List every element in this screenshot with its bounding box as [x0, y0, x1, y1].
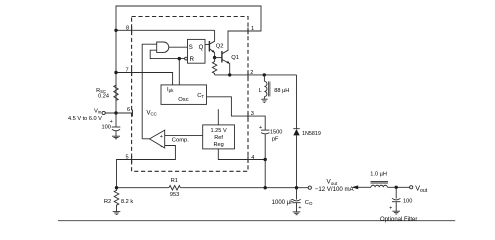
node Q1 emitter on pin2 rail: [228, 73, 231, 76]
wire output rail (Vout -12V): [117, 187, 169, 189]
svg-text:Q: Q: [199, 45, 204, 51]
ground under L: [261, 99, 267, 102]
svg-text:+: +: [160, 134, 163, 140]
svg-text:Vin: Vin: [94, 108, 102, 114]
pin tick 1: [247, 28, 249, 35]
svg-text:pF: pF: [272, 136, 279, 142]
transistor Q2: [209, 30, 214, 57]
node filter cap junction: [395, 186, 398, 189]
svg-text:8.2 k: 8.2 k: [121, 199, 133, 205]
transistor Q1: [222, 50, 230, 75]
node CT leg on rail: [264, 186, 267, 189]
diode 1N5819: [293, 75, 299, 188]
svg-text:2: 2: [250, 70, 253, 76]
svg-text:1500: 1500: [270, 129, 282, 135]
svg-text:100: 100: [403, 198, 412, 204]
ground under Co: [293, 212, 301, 215]
node R1/R2/pin5 junction: [115, 186, 118, 189]
wire outer loop Vin rail / top / pin1: [116, 6, 261, 113]
wire pin 2 rail: [215, 74, 297, 76]
node pin4/CT junction: [264, 158, 267, 161]
resistor base-emitter (Q2 emitter to pin2 rail): [212, 58, 216, 75]
svg-text:Osc: Osc: [178, 97, 188, 103]
wire arrow to filter inductor: [358, 186, 371, 188]
pin tick 4: [247, 156, 249, 163]
ground under filter cap: [392, 211, 400, 214]
inductor 1.0uH filter: [371, 181, 389, 187]
svg-text:Reg: Reg: [213, 142, 223, 148]
wire pin 6 Vin line: [105, 112, 132, 114]
svg-text:5: 5: [126, 155, 129, 161]
svg-text:-: -: [161, 144, 163, 150]
svg-text:100: 100: [102, 124, 111, 130]
svg-text:1000 µF: 1000 µF: [272, 200, 294, 206]
wire osc to R junction: [178, 59, 180, 85]
wire AND bottom input: [150, 50, 184, 58]
svg-text:R: R: [190, 57, 195, 63]
inductor L 88uH: [264, 75, 270, 99]
node osc junction: [178, 57, 181, 60]
node inductor tap on pin2 rail: [263, 73, 266, 76]
terminal Vin: [102, 111, 105, 114]
svg-text:+: +: [389, 206, 392, 212]
wire Q output to Q2 base: [205, 44, 209, 46]
wire Q2 emitter to Q1 base: [215, 57, 222, 59]
pin tick 8: [131, 27, 133, 34]
svg-text:4: 4: [251, 155, 254, 161]
svg-text:1: 1: [251, 26, 254, 32]
svg-text:1.25 V: 1.25 V: [211, 128, 227, 134]
comparator: [150, 130, 165, 148]
IC dashed boundary box: [132, 17, 248, 172]
reference regulator box: [203, 125, 235, 149]
resistor R2: [114, 188, 119, 212]
wire comparator + input from ref: [165, 134, 203, 136]
ground under R2: [113, 212, 121, 215]
pin tick 2: [247, 72, 249, 79]
wire pin 5 line: [117, 146, 176, 188]
node Vin: [114, 111, 117, 114]
svg-text:Ipk: Ipk: [167, 87, 174, 93]
svg-text:1N5819: 1N5819: [302, 131, 321, 137]
wire pin 7 line: [116, 73, 173, 85]
ground under input cap: [112, 136, 120, 139]
capacitor 100uF input: [112, 113, 121, 136]
svg-text:88 µH: 88 µH: [274, 88, 289, 94]
wire pin 8 line: [116, 29, 215, 31]
svg-text:L: L: [259, 88, 263, 94]
pin tick 5: [131, 156, 133, 163]
svg-text:4.5 V to 6.0 V: 4.5 V to 6.0 V: [68, 116, 102, 122]
svg-text:VCC: VCC: [147, 110, 157, 116]
wire filter inductor to Vout terminal: [387, 186, 409, 188]
arrow to optional filter: [352, 185, 359, 189]
AND gate U-osc: [157, 42, 169, 52]
capacitor CT 1500pF: [261, 130, 270, 159]
svg-text:6: 6: [127, 107, 130, 113]
SR latch box: [188, 39, 206, 63]
capacitor Co 1000uF: [292, 188, 300, 212]
svg-text:1.0 µH: 1.0 µH: [370, 171, 387, 177]
bottom rule: [58, 220, 455, 222]
terminal Vout: [410, 186, 413, 189]
resistor RSC (in Vin rail): [114, 85, 118, 100]
svg-text:+: +: [259, 125, 262, 131]
svg-text:7: 7: [126, 68, 129, 74]
wire ref reg to Vcc: [217, 109, 219, 125]
svg-text:Comp.: Comp.: [172, 137, 189, 143]
node diode/Co on rail: [295, 186, 298, 189]
svg-text:3: 3: [251, 111, 254, 117]
oscillator box Ipk/Osc: [161, 85, 207, 105]
svg-text:0.24: 0.24: [98, 94, 109, 100]
pin tick 3: [247, 113, 249, 120]
pin tick 7: [131, 69, 133, 76]
wire output rail right part: [180, 187, 308, 189]
wire CT from osc box to pin 3: [207, 97, 266, 130]
svg-text:S: S: [189, 45, 193, 51]
svg-text:953: 953: [170, 192, 179, 198]
svg-text:R1: R1: [171, 178, 178, 184]
svg-text:CT: CT: [197, 93, 204, 99]
R input bubble: [185, 57, 188, 60]
resistor R1: [169, 186, 181, 191]
wire AND output to S: [169, 46, 188, 48]
node pin7 on rail: [114, 71, 117, 74]
svg-text:+: +: [298, 205, 301, 211]
svg-text:8: 8: [126, 25, 129, 31]
pin tick 6: [131, 110, 133, 117]
node Q2 emitter junction: [213, 56, 216, 59]
svg-text:CO: CO: [305, 200, 313, 206]
svg-text:Ref: Ref: [214, 135, 223, 141]
node pin8 on rail: [114, 29, 117, 32]
svg-text:Q1: Q1: [231, 55, 239, 61]
capacitor 100uF filter: [392, 187, 400, 211]
wire comparator output: [142, 138, 149, 140]
svg-text:Vout: Vout: [415, 184, 428, 195]
svg-text:−12 V/100 mA: −12 V/100 mA: [315, 186, 355, 193]
svg-text:R2: R2: [104, 199, 111, 205]
svg-text:Q2: Q2: [216, 44, 224, 50]
svg-text:Vout: Vout: [327, 179, 338, 186]
wire AND top input from comparator: [142, 44, 157, 139]
terminal -12V output: [308, 186, 311, 189]
svg-text:Optional Filter: Optional Filter: [380, 217, 417, 223]
wire pin4 junction down to output rail: [264, 160, 266, 188]
wire ref reg to pin 4: [218, 149, 265, 160]
